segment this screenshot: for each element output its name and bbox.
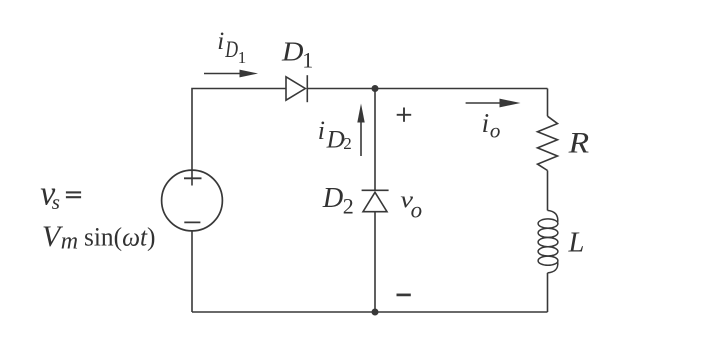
equals sign of vs [66,192,81,197]
label iD2 [318,116,352,154]
wire top rail right (D1 cathode to top-right corner) [307,88,547,90]
svg-text:i: i [482,108,490,138]
label D2 [322,183,354,219]
current arrow io [466,99,521,108]
svg-text:i: i [217,28,224,55]
wire top rail left (source to D1 anode) [192,89,286,186]
svg-text:2: 2 [343,194,354,219]
svg-text:m: m [61,228,78,254]
svg-text:D: D [322,183,344,214]
polarity minus (output) [397,294,411,297]
svg-text:1: 1 [238,48,247,67]
svg-text:R: R [567,127,589,160]
svg-text:L: L [568,227,585,258]
svg-text:sin(ωt): sin(ωt) [84,222,156,252]
wire right vertical (top corner to resistor) [547,89,549,117]
svg-text:D: D [281,36,304,67]
node B (bottom junction) [372,309,379,316]
svg-text:s: s [52,190,60,214]
wire right vertical (resistor to inductor) [547,171,549,211]
current arrow iD2 [357,104,364,157]
diode D2 [362,190,389,211]
voltage source plus terminal [184,177,202,179]
svg-text:i: i [318,116,325,145]
wire right vertical (inductor to bottom rail) [547,273,549,312]
diode D1 [286,75,307,102]
svg-text:D: D [225,37,239,62]
svg-text:o: o [490,119,501,143]
node A (top junction) [372,85,379,92]
label Vm sin(wt) [42,220,156,254]
inductor L coil [538,210,558,273]
wire middle vertical lower (D2 anode to bottom rail) [374,212,376,312]
wire bottom rail [192,311,548,313]
resistor R zigzag [538,116,558,170]
current arrow iD1 [204,70,258,78]
svg-text:2: 2 [343,134,352,153]
voltage source minus terminal [184,221,200,223]
wire middle vertical (node to D2 cathode) [374,89,376,191]
polarity plus (output) [397,108,412,122]
label D1 [281,36,313,73]
svg-text:o: o [411,197,423,222]
wire left vertical bottom (source to bottom rail) [191,231,193,312]
voltage source VS circle [162,170,223,231]
svg-text:1: 1 [302,48,313,73]
label io [482,108,501,143]
svg-text:D: D [326,126,345,153]
label vs [40,173,60,214]
label vo [400,188,422,223]
label iD1 [217,28,246,67]
